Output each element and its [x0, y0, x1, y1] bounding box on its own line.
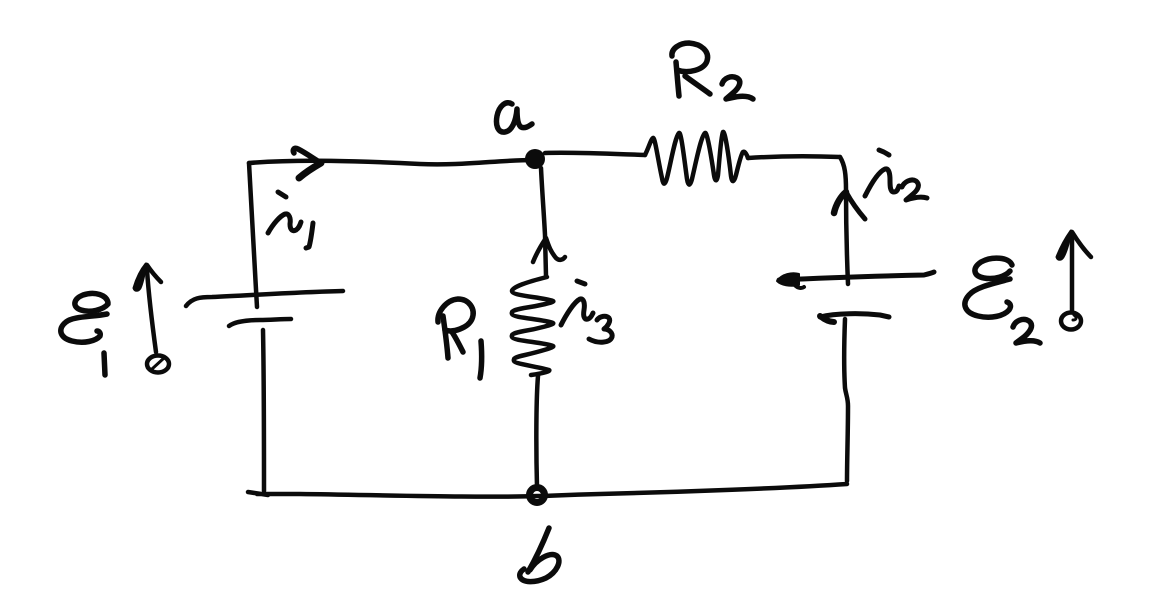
E1 label script	[61, 293, 108, 375]
arrowhead i3 (pointing up)	[533, 238, 565, 262]
E1 arrow with circle	[134, 264, 169, 373]
R1 label	[438, 299, 482, 378]
i1 label	[268, 192, 313, 248]
wire right vertical upper with corner	[840, 157, 848, 284]
resistor R1	[512, 277, 554, 375]
node a	[525, 149, 545, 169]
arrowhead i2 (pointing up)	[834, 192, 846, 213]
wire right vertical lower	[844, 319, 848, 481]
E2 arrow with circle	[1057, 231, 1091, 330]
node a label	[496, 103, 532, 132]
i2 label	[865, 150, 927, 200]
battery E1 bottom plate	[229, 319, 291, 326]
wire bottom horizontal	[248, 484, 847, 497]
wire below R1 to node b	[536, 376, 538, 487]
battery E1 top plate	[186, 291, 343, 306]
wire node a to resistor R2	[545, 153, 645, 155]
arrow on top wire pointing right	[293, 148, 321, 163]
i3 label	[561, 281, 612, 342]
battery E2 top plate with left arrowhead	[779, 272, 934, 280]
node b label	[520, 528, 559, 582]
wire left vertical lower	[263, 330, 264, 491]
wire R2 to top-right corner	[748, 156, 840, 158]
R2 label	[672, 43, 753, 99]
wire left vertical upper (corner down to battery E1 top plate)	[249, 163, 257, 307]
resistor R2	[645, 132, 748, 185]
wire middle vertical from node a down	[541, 168, 546, 276]
node b	[530, 488, 545, 503]
battery E2 bottom plate	[820, 314, 889, 317]
wire top horizontal from left corner to node a	[249, 160, 533, 164]
E2 label script	[965, 258, 1040, 343]
